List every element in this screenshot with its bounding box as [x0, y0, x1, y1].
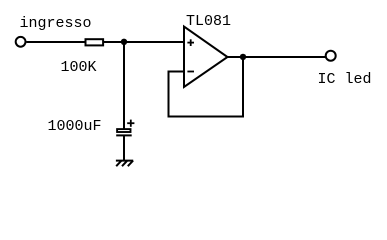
resistor R1 (100K): [86, 39, 104, 45]
op-amp U1 TL081: [184, 27, 228, 88]
ground symbol: [116, 161, 133, 167]
input terminal J1: [16, 37, 26, 47]
wire: feedback bottom horizontal: [168, 116, 245, 118]
wire: resistor to op-amp non-inverting input: [104, 41, 184, 43]
wire: feedback left vertical: [168, 71, 170, 118]
svg-text:IC led: IC led: [318, 71, 372, 88]
wire: op-amp output to output terminal: [228, 56, 327, 58]
svg-text:TL081: TL081: [186, 13, 231, 30]
node: junction of resistor, capacitor, op-amp input: [121, 39, 127, 45]
svg-text:100K: 100K: [61, 59, 97, 76]
wire: capacitor to ground: [123, 135, 125, 160]
svg-text:ingresso: ingresso: [20, 15, 92, 32]
wire: inverting input stub: [169, 71, 185, 73]
node: output junction (feedback tap): [240, 54, 246, 60]
svg-text:1000uF: 1000uF: [48, 118, 102, 135]
wire: feedback right vertical up to output: [242, 57, 244, 118]
output terminal (to IC led): [326, 51, 336, 61]
polarity plus sign of C1: [127, 120, 134, 127]
capacitor C1 (1000uF electrolytic): [116, 129, 132, 135]
wire: input terminal to resistor: [27, 41, 86, 43]
wire: junction down to capacitor: [123, 42, 125, 129]
